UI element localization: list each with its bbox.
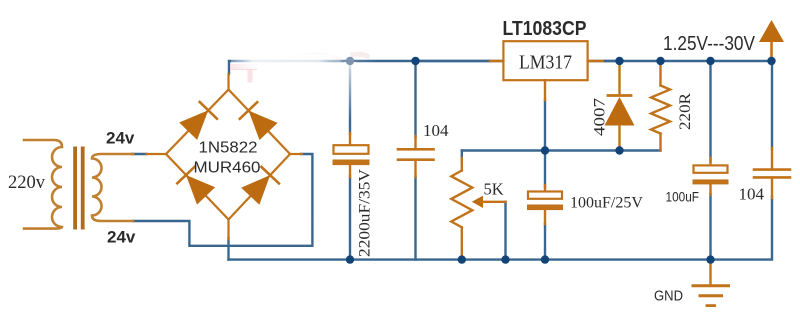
svg-text:24v: 24v	[106, 129, 135, 148]
node: ground rail / ground symbol	[706, 255, 714, 263]
svg-text:MUR460: MUR460	[194, 160, 261, 177]
ground symbol	[693, 260, 729, 306]
wire: 5K wiper down	[504, 202, 506, 260]
node: ground rail / 5K	[458, 255, 466, 263]
wire: LM317 input from 104 branch	[416, 60, 491, 62]
regulator U1 LM317	[490, 41, 605, 100]
node: rail/220R	[656, 57, 664, 65]
svg-text:24v: 24v	[107, 228, 136, 247]
wire: 100uF/25V bottom lead to rail	[544, 224, 546, 260]
resistor R1 220R	[651, 61, 694, 151]
node: rail/4007	[615, 57, 623, 65]
node: adj net / 4007	[615, 146, 623, 154]
svg-text:4007: 4007	[592, 98, 609, 136]
wire: AC return loop (transformer secondary bottom around to bridge right vertex)	[133, 154, 312, 246]
wire: 100uF output branch bottom	[709, 194, 711, 260]
output arrow (V+ terminal)	[759, 20, 784, 61]
svg-text:104: 104	[739, 185, 765, 204]
diode D4 (bridge bottom-right)	[241, 167, 279, 205]
diode D2 (bridge top-right)	[240, 102, 278, 140]
wire: 2200uF bottom branch	[349, 176, 351, 260]
svg-text:LM317: LM317	[519, 53, 572, 74]
diode D3 (bridge bottom-left)	[177, 167, 215, 205]
node: rail/100uF	[706, 57, 714, 65]
node: ground rail / 2200uF	[346, 255, 354, 263]
svg-text:220v: 220v	[8, 173, 46, 193]
wire: 100uF output branch top	[709, 61, 711, 161]
wire: 104 input cap top branch	[414, 61, 416, 137]
wire: mid horizontal net (adj net)	[462, 149, 661, 151]
wire: bridge top vertex lead	[227, 74, 229, 90]
svg-text:100uF/25V: 100uF/25V	[570, 195, 643, 212]
wire: right 104 branch top	[771, 61, 773, 149]
wire: 2200uF top branch	[349, 61, 351, 134]
node: adj net / 100uF25V	[541, 146, 549, 154]
fade overlay on top rail (erased watermark area)	[231, 54, 377, 69]
capacitor C3 100uF/25V electrolytic	[527, 185, 643, 224]
svg-text:GND: GND	[654, 288, 683, 305]
node: ground rail / 100uF25V	[541, 255, 549, 263]
node: rail/104	[411, 57, 419, 65]
wire: top rail from bridge top corner to output corner	[229, 61, 772, 74]
wire: LM317 output to rail (blue part)	[605, 60, 620, 62]
bridge rectifier frame	[147, 74, 303, 239]
svg-text:220R: 220R	[677, 92, 694, 130]
wire: bridge edge top-right	[229, 90, 291, 155]
svg-text:5K: 5K	[484, 180, 504, 199]
transformer T1 core	[73, 147, 77, 230]
watermark remnant pink smudge	[233, 64, 254, 70]
svg-text:100uF: 100uF	[666, 189, 700, 205]
capacitor C4 100uF electrolytic	[666, 158, 729, 205]
wire: bridge edge left-bottom	[166, 154, 229, 220]
wire: bridge bottom vertex down to ground rail	[227, 238, 229, 260]
wire: bridge bottom vertex lead	[227, 220, 229, 240]
wire: 104 input cap bottom branch	[414, 177, 416, 260]
transformer T1 secondary winding	[92, 154, 133, 221]
wire: bridge left vertex lead	[147, 153, 167, 155]
svg-text:1N5822: 1N5822	[199, 140, 258, 157]
capacitor C5 104 output ceramic	[739, 148, 791, 204]
transformer T1 primary winding	[24, 140, 62, 229]
wire: 5K top corner	[461, 151, 463, 161]
capacitor C1 2200uF/35V electrolytic	[333, 133, 374, 257]
svg-text:104: 104	[423, 121, 449, 140]
wire: AC top (transformer secondary top to bridge left vertex)	[132, 153, 147, 155]
svg-text:1.25V---30V: 1.25V---30V	[663, 33, 756, 55]
diode D5 4007	[592, 61, 635, 150]
diode D1 (bridge top-left)	[179, 102, 217, 140]
wire: bridge right vertex lead	[290, 153, 302, 155]
wire: LM317 adj line down	[544, 100, 546, 187]
svg-text:2200uF/35V: 2200uF/35V	[357, 169, 374, 257]
wire: bridge edge left-top	[166, 90, 229, 155]
capacitor C2 104 ceramic	[398, 121, 449, 177]
node: rail/2200uF (faded)	[346, 57, 354, 65]
svg-text:LT1083CP: LT1083CP	[503, 18, 587, 40]
potentiometer RV1 5K	[451, 158, 505, 260]
wiper arrow	[472, 196, 483, 208]
node: ground rail / wiper	[501, 255, 509, 263]
wire: bottom ground rail	[229, 197, 773, 260]
node: rail/output arrow	[767, 57, 775, 65]
wire: bridge edge bottom-right	[229, 154, 291, 220]
